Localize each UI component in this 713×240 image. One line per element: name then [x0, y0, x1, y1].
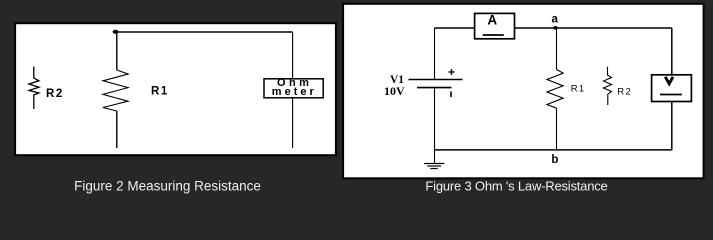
wire (ammeter to node a) — [515, 27, 557, 29]
wire (node a to top right corner) — [557, 27, 672, 29]
svg-text:R2: R2 — [46, 88, 64, 100]
wire (voltmeter bottom down to bottom wire) — [671, 102, 673, 150]
wire (R1 bottom lead to bottom wire) — [556, 108, 558, 150]
svg-text:R1: R1 — [571, 84, 586, 95]
resistor R1 (right panel zigzag) — [547, 70, 563, 109]
voltmeter V box — [652, 75, 692, 102]
ohm meter box — [264, 77, 323, 98]
right schematic panel frame (Figure 3) — [343, 4, 703, 179]
resistor R2 (right panel, floating) — [604, 67, 612, 105]
wire (top wire battery to ammeter) — [435, 27, 475, 29]
svg-text:a: a — [552, 14, 559, 26]
svg-text:b: b — [551, 154, 558, 166]
svg-text:R1: R1 — [151, 86, 169, 98]
wire (bottom wire) — [435, 149, 672, 151]
svg-text:10V: 10V — [384, 84, 405, 98]
svg-text:meter: meter — [272, 86, 317, 98]
resistor R2 (left panel, floating) — [29, 67, 39, 110]
node a (junction dot) — [553, 26, 557, 30]
wire (junction down to R1 top lead) — [116, 32, 118, 70]
svg-text:Figure 2 Measuring Resistance: Figure 2 Measuring Resistance — [74, 179, 261, 194]
svg-text:R2: R2 — [617, 86, 632, 97]
left schematic panel frame (Figure 2) — [15, 23, 336, 155]
wire (battery bottom lead down through bottom wire to ground) — [434, 88, 436, 164]
node (junction dot at top of R1) — [113, 30, 119, 34]
wire (top-right corner down to ohm meter) — [292, 32, 294, 79]
wire (R1 bottom lead down) — [116, 111, 118, 148]
wire (battery top lead up to top wire) — [434, 28, 436, 79]
svg-text:A: A — [487, 13, 497, 28]
svg-text:Figure 3 Ohm 's Law-Resistance: Figure 3 Ohm 's Law-Resistance — [425, 179, 607, 194]
wire (node a down to R1 top) — [556, 28, 558, 70]
wire (top right corner down to voltmeter) — [671, 28, 673, 75]
battery V1 plates — [409, 80, 463, 88]
wire (top wire from junction to right corner) — [117, 31, 293, 33]
ground symbol — [424, 164, 444, 169]
wire (ohm meter bottom down) — [292, 99, 294, 149]
battery minus tick — [450, 92, 452, 98]
resistor R1 (left panel zigzag) — [103, 70, 128, 111]
battery plus sign — [449, 69, 455, 75]
ammeter A box — [475, 13, 515, 39]
